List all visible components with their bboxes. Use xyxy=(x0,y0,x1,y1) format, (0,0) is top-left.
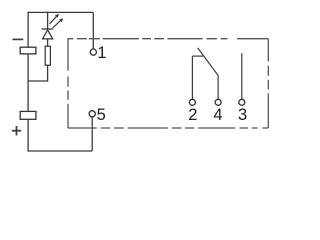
label minus xyxy=(12,38,23,40)
svg-text:3: 3 xyxy=(238,106,247,124)
wire pin2 vertical xyxy=(191,56,193,99)
label plus xyxy=(12,126,21,135)
svg-text:5: 5 xyxy=(97,106,106,124)
dashed enclosure left edge xyxy=(67,39,69,128)
dashed enclosure right edge xyxy=(267,39,269,128)
wire left branch upper xyxy=(27,12,29,47)
wire resistor to joint xyxy=(28,65,47,81)
resistor R3 (vertical) xyxy=(45,46,50,65)
wire pin4 vertical xyxy=(217,76,219,99)
terminal pin 3 xyxy=(239,99,245,105)
resistor R2 (lower box on left branch) xyxy=(20,111,36,119)
wire left branch lower xyxy=(27,119,29,151)
terminal pin 1 xyxy=(90,49,96,55)
LED D1 triangle xyxy=(43,30,53,39)
wire pin5 vertical xyxy=(91,117,93,151)
svg-text:4: 4 xyxy=(213,106,222,124)
wire left branch middle xyxy=(27,54,29,112)
svg-text:1: 1 xyxy=(97,44,106,62)
dashed enclosure top edge xyxy=(68,38,269,40)
wire LED branch top xyxy=(47,12,49,29)
contact blade xyxy=(198,48,219,76)
dashed enclosure bottom edge xyxy=(68,127,268,129)
wire bottom horizontal xyxy=(28,150,93,152)
LED D1 light arrow 1 xyxy=(50,14,59,24)
wire pin3 vertical xyxy=(241,53,243,99)
terminal pin 4 xyxy=(215,99,221,105)
LED D1 light arrow 2 xyxy=(53,18,64,28)
contact fixed stub (pin2) xyxy=(192,55,203,57)
svg-text:2: 2 xyxy=(188,106,197,124)
wire LED to resistor xyxy=(47,39,49,46)
terminal pin 5 xyxy=(89,111,95,117)
terminal pin 2 xyxy=(189,99,195,105)
wire top horizontal xyxy=(28,11,93,13)
LED D1 cathode bar xyxy=(42,28,53,30)
wire pin1 vertical xyxy=(92,12,94,48)
resistor R1 (upper box on left branch) xyxy=(20,47,36,54)
